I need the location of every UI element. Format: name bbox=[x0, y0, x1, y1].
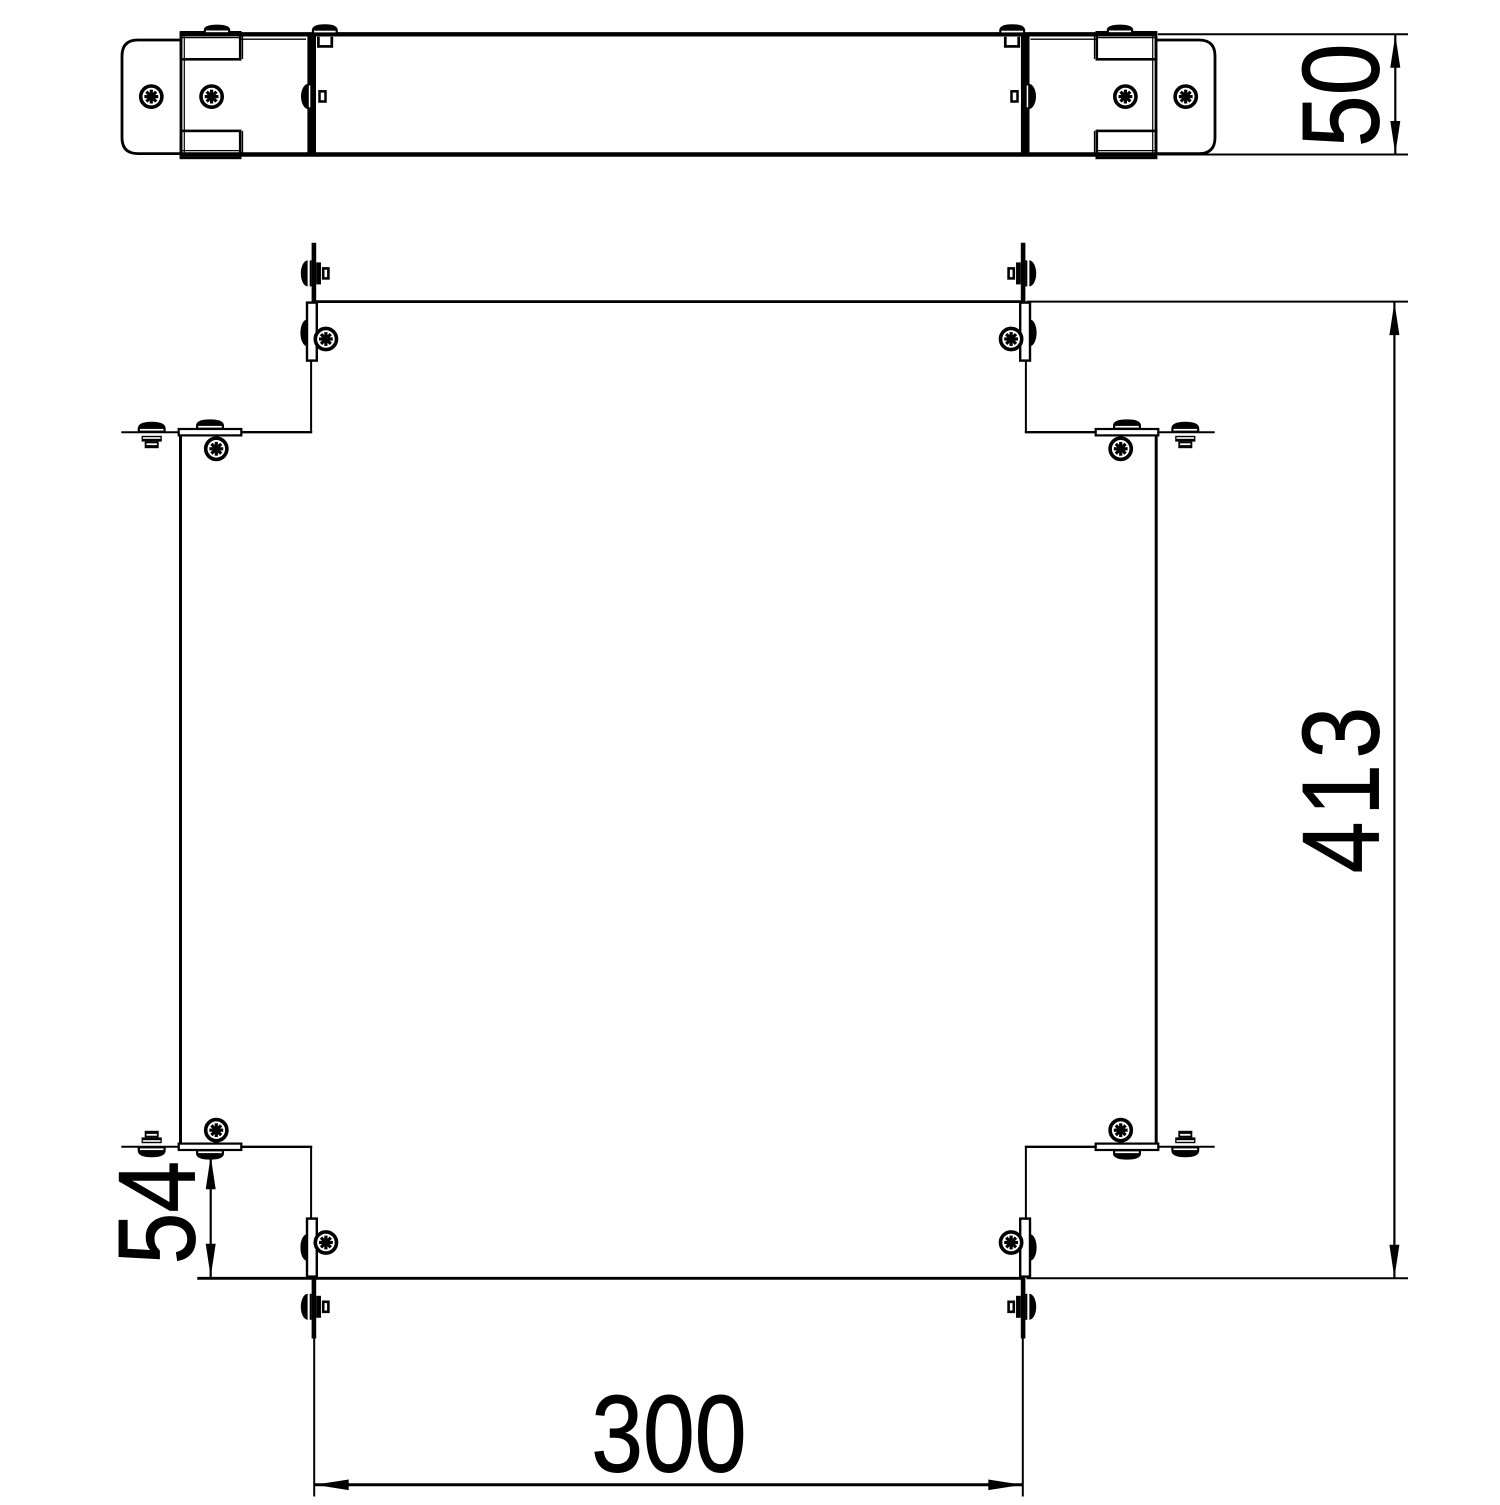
svg-text:300: 300 bbox=[591, 1373, 746, 1496]
side screw left of top-left corner bbox=[138, 422, 166, 448]
top-right corner step bbox=[1025, 360, 1215, 432]
side screw right of bottom-right corner bbox=[1171, 1131, 1199, 1157]
rail top edge (side view) bbox=[181, 32, 1156, 36]
plan right edge bbox=[1155, 432, 1158, 1147]
side screw left of bottom-left corner bbox=[138, 1131, 166, 1157]
rail inner lines in left bracket bbox=[182, 38, 239, 151]
bottom-right tab on bottom edge bbox=[1001, 1219, 1037, 1277]
torx screw on left end cap bbox=[141, 86, 162, 107]
plan top edge bbox=[312, 300, 1025, 303]
screw on top of left joint bbox=[312, 24, 338, 47]
label 50 bbox=[1279, 44, 1402, 148]
rail inner lines in right bracket bbox=[1098, 38, 1155, 151]
label 54 bbox=[95, 1161, 218, 1265]
label 300 bbox=[591, 1373, 746, 1496]
top-right tab on right side bbox=[1096, 419, 1159, 459]
stud above top-right corner bbox=[1021, 243, 1026, 302]
bottom-right tab on right side bbox=[1096, 1120, 1159, 1160]
dimension line 54 bbox=[206, 1156, 216, 1278]
dimension line 50 bbox=[1390, 34, 1400, 154]
top-left tab on left side bbox=[179, 419, 242, 459]
right clamp bracket bbox=[1095, 32, 1157, 159]
side screw right of top-right corner bbox=[1171, 422, 1199, 448]
right end cap plate bbox=[1153, 40, 1215, 154]
screw on stud above top-left corner bbox=[301, 260, 329, 286]
stud below bottom-left corner bbox=[312, 1278, 317, 1338]
top-left tab on top edge bbox=[300, 303, 336, 361]
top-right tab on top edge bbox=[1001, 303, 1037, 361]
screw head on left bracket bbox=[204, 25, 231, 34]
svg-text:54: 54 bbox=[95, 1161, 218, 1265]
dimension line 413 bbox=[1389, 302, 1399, 1279]
screw on top of right joint bbox=[999, 24, 1025, 47]
torx screw in left bracket bbox=[201, 86, 222, 107]
extension lines for 50 bbox=[1158, 34, 1408, 154]
bottom-left tab on left side bbox=[179, 1120, 242, 1160]
plan bottom edge bbox=[197, 1277, 1025, 1280]
side screw through right joint bbox=[1012, 84, 1037, 110]
svg-text:413: 413 bbox=[1279, 707, 1402, 874]
side screw through left joint bbox=[301, 84, 325, 110]
top-left corner step bbox=[121, 360, 312, 432]
bottom-left corner step bbox=[121, 1147, 312, 1219]
plan left edge bbox=[179, 432, 182, 1147]
torx screw on right end cap bbox=[1175, 86, 1196, 107]
torx screw in right bracket bbox=[1115, 86, 1136, 107]
screw head on right bracket bbox=[1107, 25, 1134, 34]
left rail joint plate bbox=[240, 33, 316, 155]
svg-text:50: 50 bbox=[1279, 44, 1402, 148]
bottom-left tab on bottom edge bbox=[300, 1219, 336, 1277]
dimension line 300 bbox=[314, 1480, 1023, 1491]
left end cap plate bbox=[122, 40, 184, 154]
screw on stud below bottom-left corner bbox=[301, 1294, 329, 1320]
screw on stud above top-right corner bbox=[1009, 260, 1037, 286]
left clamp bracket bbox=[181, 32, 243, 159]
stud above top-left corner bbox=[312, 243, 317, 302]
rail bottom edge (side view) bbox=[181, 152, 1156, 156]
stud below bottom-right corner bbox=[1021, 1278, 1026, 1338]
label 413 bbox=[1279, 707, 1402, 874]
right rail joint plate bbox=[1021, 33, 1097, 155]
screw on stud below bottom-right corner bbox=[1009, 1294, 1037, 1320]
extension lines for 300 bbox=[314, 1339, 1023, 1497]
bottom-right corner step bbox=[1025, 1147, 1215, 1219]
extension lines for 413 bbox=[1027, 302, 1409, 1279]
